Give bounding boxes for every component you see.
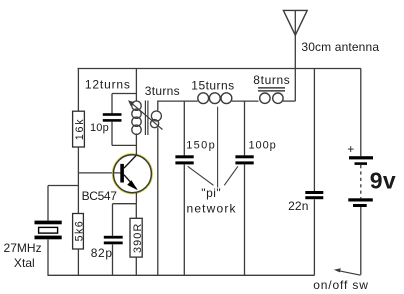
transformer T1 core bbox=[145, 101, 148, 136]
label pi bbox=[201, 186, 220, 200]
capacitor 82p bbox=[104, 236, 123, 245]
inductor L2 8turns core bbox=[258, 88, 285, 91]
svg-text:82p: 82p bbox=[91, 246, 113, 260]
transistor Q1 BC547 halo bbox=[112, 154, 152, 194]
label BC547 bbox=[82, 189, 118, 203]
wire collector lead bbox=[135, 145, 137, 155]
crystal 27MHz Xtal bbox=[35, 221, 62, 240]
label 82p bbox=[91, 246, 113, 260]
switch on/off blade bbox=[334, 268, 361, 275]
wire emitter lead bbox=[135, 192, 137, 204]
svg-text:150p: 150p bbox=[186, 139, 215, 151]
svg-text:100p: 100p bbox=[249, 140, 276, 152]
wire between 15turns and 8turns bbox=[232, 100, 259, 102]
wire bottom ground rail bbox=[48, 274, 315, 276]
label 30cm antenna bbox=[301, 40, 379, 54]
wire pi label pointer from 150p bbox=[188, 166, 214, 185]
capacitor 22n bbox=[305, 191, 323, 199]
svg-text:27MHz: 27MHz bbox=[4, 241, 42, 255]
label 100p bbox=[249, 140, 276, 152]
wire 8turns to antenna bbox=[283, 100, 295, 102]
svg-text:3turns: 3turns bbox=[145, 84, 180, 98]
svg-text:22n: 22n bbox=[288, 199, 308, 213]
label 9v bbox=[370, 168, 396, 194]
svg-text:+: + bbox=[347, 142, 354, 156]
wire base lead bbox=[78, 172, 120, 174]
wire 100p lower lead bbox=[244, 164, 246, 275]
label battery plus bbox=[347, 142, 354, 156]
transformer T1 tuning arrow bbox=[128, 100, 163, 129]
wire top supply rail bbox=[78, 68, 362, 70]
svg-text:5k6: 5k6 bbox=[74, 221, 86, 241]
wire pi label pointer from 100p bbox=[224, 166, 238, 185]
svg-text:10p: 10p bbox=[90, 122, 109, 134]
resistor 390R bbox=[130, 218, 144, 257]
wire 22n upper lead bbox=[313, 69, 315, 192]
wire 10p top tee bbox=[112, 93, 136, 95]
label 22n bbox=[288, 199, 308, 213]
svg-text:16k: 16k bbox=[74, 119, 86, 141]
label 15turns bbox=[191, 79, 234, 93]
wire 390R upper lead bbox=[135, 204, 137, 219]
capacitor 100p bbox=[235, 155, 253, 164]
svg-text:12turns: 12turns bbox=[85, 78, 130, 92]
antenna bbox=[283, 10, 307, 35]
wire 82p lower lead bbox=[112, 244, 114, 275]
label 27MHz bbox=[4, 241, 42, 255]
inductor L2 8turns bbox=[260, 93, 283, 103]
transformer T1 primary winding 12turns bbox=[132, 101, 141, 134]
wire xtal tee horizontal bbox=[48, 185, 78, 187]
transformer T1 secondary winding 3turns bbox=[151, 111, 162, 128]
wire 150p lower lead bbox=[183, 164, 185, 275]
svg-text:network: network bbox=[187, 202, 237, 216]
wire 100p upper lead bbox=[244, 101, 246, 155]
wire 10p lower lead bbox=[111, 122, 113, 146]
resistor 5k6 bbox=[73, 214, 86, 250]
wire 390R lower lead bbox=[135, 257, 137, 275]
svg-text:Xtal: Xtal bbox=[14, 256, 35, 270]
wire battery to switch bbox=[360, 207, 362, 275]
wire collector junction horizontal bbox=[112, 144, 136, 146]
wire battery feed from rail bbox=[360, 69, 362, 157]
label 8turns bbox=[253, 73, 289, 87]
wire secondary top to pi network bbox=[158, 101, 198, 110]
wire 5k6 to ground rail bbox=[77, 249, 79, 275]
label 10p bbox=[90, 122, 109, 134]
wire 82p upper lead bbox=[112, 204, 114, 236]
wire transformer primary feed bbox=[135, 69, 137, 102]
resistor 16k bbox=[73, 111, 86, 147]
label network bbox=[187, 202, 237, 216]
svg-text:9v: 9v bbox=[370, 168, 396, 194]
battery 9v bbox=[348, 156, 373, 207]
svg-text:8turns: 8turns bbox=[253, 73, 289, 87]
wire emitter tee horizontal bbox=[113, 203, 137, 205]
capacitor 150p bbox=[175, 155, 193, 164]
label Xtal bbox=[14, 256, 35, 270]
wire pi label pointer vertical bbox=[217, 107, 219, 188]
transistor Q1 BC547 body bbox=[113, 155, 151, 193]
capacitor 10p bbox=[103, 113, 122, 122]
label on/off sw bbox=[313, 278, 368, 292]
svg-text:"pi": "pi" bbox=[201, 186, 220, 200]
wire 150p upper lead bbox=[183, 101, 185, 155]
wire primary bottom to junction bbox=[135, 134, 137, 146]
wire antenna lead bbox=[294, 10, 296, 101]
svg-text:30cm antenna: 30cm antenna bbox=[301, 40, 379, 54]
wire 22n lower lead bbox=[313, 199, 315, 275]
svg-text:390R: 390R bbox=[132, 224, 144, 253]
inductor L1 15turns bbox=[198, 93, 232, 104]
wire xtal branch upper bbox=[47, 186, 49, 221]
svg-text:on/off sw: on/off sw bbox=[313, 278, 368, 292]
wire 16k to base junction to xtal tee bbox=[77, 147, 79, 214]
svg-text:BC547: BC547 bbox=[82, 189, 118, 203]
svg-text:15turns: 15turns bbox=[191, 79, 234, 93]
label 3turns bbox=[145, 84, 180, 98]
wire 10p upper lead bbox=[111, 94, 113, 114]
label 12turns bbox=[85, 78, 130, 92]
wire secondary bottom to ground bbox=[157, 128, 159, 276]
wire xtal branch lower bbox=[47, 239, 49, 275]
label 150p bbox=[186, 139, 215, 151]
wire left column top (rail to 16k) bbox=[77, 69, 79, 112]
